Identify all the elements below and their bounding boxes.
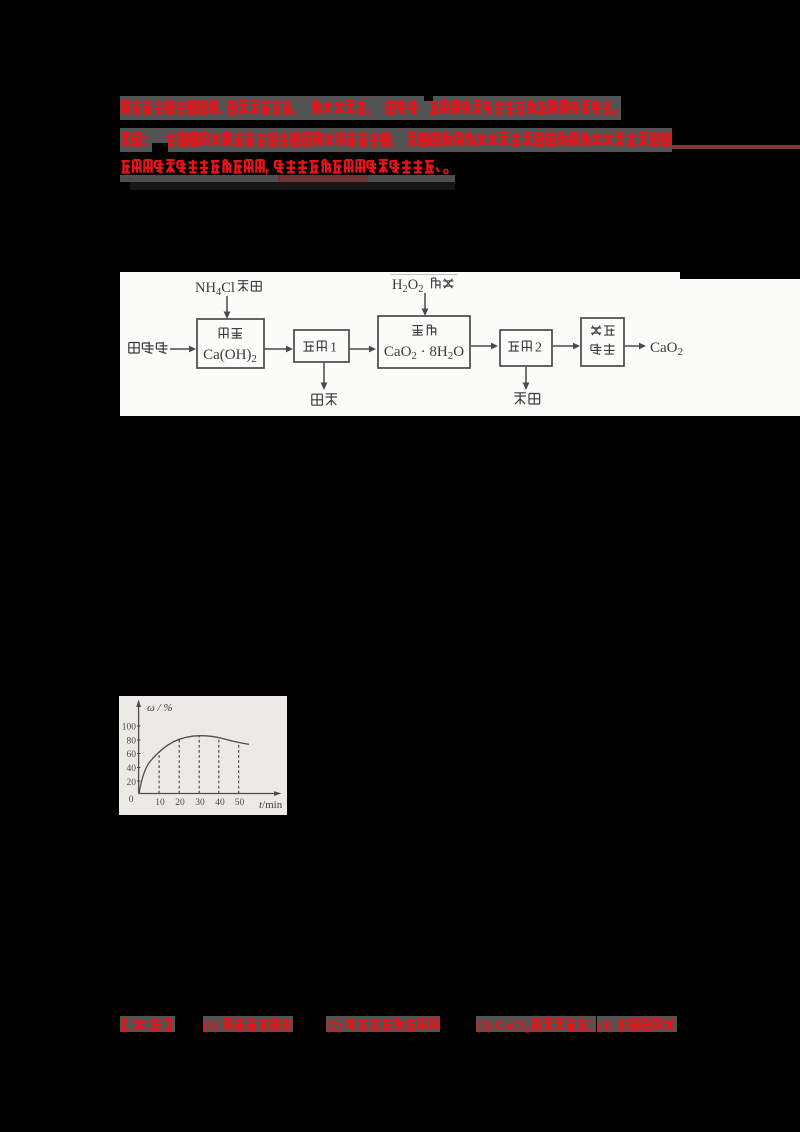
svg-text:80: 80 xyxy=(127,737,137,747)
box2 filter1 xyxy=(294,330,349,362)
arrow box4 to box5 xyxy=(553,345,573,347)
svg-text:Ca(OH)2: Ca(OH)2 xyxy=(203,347,257,365)
x tick labels xyxy=(155,798,244,808)
svg-text:40: 40 xyxy=(215,798,225,808)
svg-text:CaCl2: CaCl2 xyxy=(495,1018,530,1033)
svg-text:1: 1 xyxy=(330,341,337,356)
answer segment (2) xyxy=(326,1016,440,1032)
arrow box1 to box2 xyxy=(264,348,286,350)
arrow NH4Cl down xyxy=(226,296,228,313)
svg-text:20: 20 xyxy=(175,798,185,808)
arrow box5 out xyxy=(625,345,639,347)
svg-text:t/min: t/min xyxy=(259,799,283,811)
box1 extract Ca(OH)2 xyxy=(197,319,264,368)
svg-text:60: 60 xyxy=(127,750,137,760)
arrow box2 to box3 xyxy=(350,348,369,350)
box4 filter2 xyxy=(500,330,552,366)
faint top line xyxy=(390,274,458,276)
y axis xyxy=(138,704,140,794)
y ticks xyxy=(137,726,141,781)
svg-text:2: 2 xyxy=(535,341,542,356)
svg-text:CaO2 · 8H2O: CaO2 · 8H2O xyxy=(384,344,464,362)
arrow H2O2 down xyxy=(424,293,426,310)
svg-text:20: 20 xyxy=(127,778,137,788)
label residue xyxy=(312,394,337,406)
svg-text:(4): (4) xyxy=(597,1018,613,1033)
arrow box4 down xyxy=(525,367,527,384)
svg-text:(2): (2) xyxy=(326,1018,342,1033)
svg-text:40: 40 xyxy=(127,764,137,774)
svg-text:(3): (3) xyxy=(476,1018,492,1033)
label filtrate xyxy=(514,393,539,405)
svg-text:0: 0 xyxy=(129,795,134,805)
svg-text:30: 30 xyxy=(195,798,205,808)
flowchart white panel A xyxy=(120,272,680,416)
maroon underline strip after line 2 xyxy=(672,145,800,149)
flowchart drawing xyxy=(120,272,730,416)
blank white panel B xyxy=(680,279,800,416)
red highlighted paragraph line 1 xyxy=(120,96,621,120)
box3 prepare CaO2.8H2O xyxy=(378,316,470,368)
arrow slag to box1 xyxy=(170,348,189,350)
box5 dry dehydrate xyxy=(581,318,624,366)
svg-text:ω / %: ω / % xyxy=(147,702,173,714)
red highlighted paragraph line 2 xyxy=(120,128,672,152)
y tick labels xyxy=(122,723,137,806)
red paragraph line 3 (underline style highlight) xyxy=(120,159,465,177)
chart svg xyxy=(119,696,287,815)
svg-text:CaO2: CaO2 xyxy=(650,340,683,358)
maroon strip under line 3 mid xyxy=(278,175,368,182)
dashed guide lines xyxy=(159,736,239,793)
curve xyxy=(139,736,249,794)
black notch in line2 highlight xyxy=(152,143,168,152)
black notch in line1 highlight xyxy=(424,96,433,101)
chart white panel xyxy=(119,696,287,815)
answer segment: [answer] xyxy=(120,1016,175,1032)
svg-text:10: 10 xyxy=(155,798,165,808)
answer segment (3) xyxy=(476,1016,596,1032)
answer segment (4) xyxy=(597,1016,677,1032)
svg-text:100: 100 xyxy=(122,723,137,733)
svg-text:(1): (1) xyxy=(203,1018,219,1033)
arrow box3 to box4 xyxy=(471,345,491,347)
svg-text:H2O2: H2O2 xyxy=(392,277,423,295)
gray strip under line 3 right xyxy=(368,175,455,182)
x axis xyxy=(139,793,275,795)
gray strip under line 3 xyxy=(120,175,278,182)
svg-text:50: 50 xyxy=(235,798,245,808)
svg-text:NH4Cl: NH4Cl xyxy=(195,280,235,298)
faint dark residual row xyxy=(130,182,455,190)
label carbide slag xyxy=(129,342,168,354)
answer segment (1) xyxy=(203,1016,293,1032)
arrow box2 down xyxy=(323,363,325,384)
